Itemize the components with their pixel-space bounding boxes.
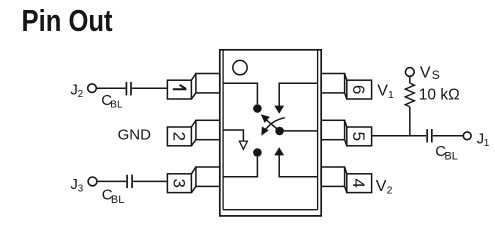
wire pin5 internal — [280, 130, 318, 132]
label J3 — [70, 176, 83, 195]
wire pin5 to J1 — [372, 135, 427, 137]
wire pin3 internal — [223, 157, 257, 177]
svg-text:Pin Out: Pin Out — [22, 4, 114, 38]
svg-text:4: 4 — [349, 178, 368, 187]
svg-text:2: 2 — [169, 132, 188, 141]
label CBL top — [101, 92, 123, 111]
wire J3 to CBL — [97, 180, 126, 182]
svg-text:6: 6 — [349, 85, 368, 94]
terminal J3 — [88, 177, 97, 186]
svg-text:5: 5 — [349, 132, 368, 141]
label V2 — [376, 178, 393, 197]
svg-text:GND: GND — [118, 126, 152, 143]
node common dot — [275, 127, 284, 136]
wire pin6 internal V1 arrow — [279, 83, 317, 106]
svg-text:BL: BL — [444, 150, 457, 162]
svg-text:10 kΩ: 10 kΩ — [419, 86, 460, 103]
capacitor CBL top — [125, 82, 127, 95]
svg-text:1: 1 — [388, 89, 394, 101]
svg-text:BL: BL — [111, 194, 124, 206]
svg-text:2: 2 — [387, 184, 393, 196]
pin-1 indicator circle — [233, 60, 247, 74]
svg-text:V: V — [420, 65, 431, 82]
capacitor CBL bottom — [126, 175, 128, 188]
pin 2 — [167, 120, 219, 146]
svg-text:1: 1 — [484, 138, 490, 149]
resistor R1 10k — [405, 83, 414, 107]
wire VS to resistor — [409, 76, 411, 83]
node throw2 dot — [253, 148, 262, 157]
terminal J1 — [463, 132, 471, 140]
pin 4 — [321, 167, 371, 193]
label CBL right — [435, 143, 458, 162]
label CBL bottom — [102, 186, 125, 206]
switch motion arrow — [266, 118, 285, 130]
wire pin2 internal — [223, 130, 243, 141]
pin 5 — [321, 120, 371, 146]
wire J2 to CBL — [97, 87, 126, 89]
wire CBL to pin1 — [132, 87, 167, 89]
svg-text:S: S — [432, 68, 440, 82]
wire pin1 internal — [223, 83, 257, 104]
svg-text:3: 3 — [169, 178, 188, 187]
label J1 — [477, 131, 490, 149]
svg-text:V: V — [376, 178, 387, 195]
svg-text:V: V — [377, 82, 388, 99]
label VS — [420, 65, 440, 83]
svg-text:2: 2 — [78, 89, 84, 100]
wire CBL to pin3 — [133, 180, 167, 182]
pin 1 — [167, 74, 219, 100]
svg-text:BL: BL — [110, 100, 123, 111]
svg-text:3: 3 — [78, 184, 84, 195]
terminal VS — [405, 68, 414, 77]
capacitor CBL right — [426, 129, 428, 142]
pin 3 — [167, 167, 219, 193]
ground — [239, 141, 247, 149]
wire pin4 internal V2 arrow — [279, 155, 317, 177]
node throw1 dot — [253, 104, 262, 113]
switch wiper — [267, 120, 280, 131]
terminal J2 — [88, 84, 97, 93]
label J2 — [70, 81, 83, 100]
wire resistor to junction — [409, 107, 411, 136]
IC U1 package outline — [220, 50, 321, 216]
label V1 — [377, 82, 394, 101]
pin 6 — [321, 74, 371, 100]
